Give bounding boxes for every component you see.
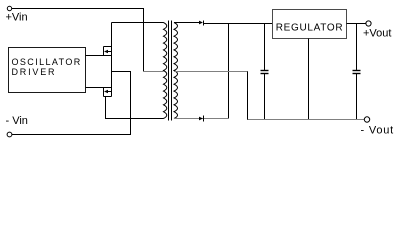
wire -Vin rail — [12, 134, 131, 136]
transistor Q2 — [104, 87, 112, 97]
capacitor C1 — [261, 24, 269, 121]
transistor Q1 — [104, 47, 112, 57]
svg-text:- Vout: - Vout — [361, 125, 395, 137]
wire +Vin drop to center tap — [143, 9, 145, 73]
terminal -Vin — [7, 132, 12, 137]
transformer T1 core — [168, 21, 170, 121]
diode D2 — [199, 116, 204, 122]
svg-text:- Vin: - Vin — [6, 115, 28, 127]
wire FET chain vertical — [111, 23, 113, 97]
wire regulator ground lead — [308, 39, 310, 121]
terminal +Vout — [366, 21, 371, 26]
svg-text:+Vin: +Vin — [6, 12, 28, 24]
wire secondary bottom lead (grey) — [174, 118, 229, 120]
wire regulator output — [347, 23, 366, 25]
wire midpoint tap — [112, 71, 132, 73]
wire primary bottom lead — [106, 118, 164, 120]
svg-text:OSCILLATOR: OSCILLATOR — [12, 57, 82, 67]
wire Q2 drain down — [105, 97, 107, 120]
wire Q1 drain to primary top — [112, 22, 164, 24]
svg-text:DRIVER: DRIVER — [12, 67, 57, 77]
box oscillator driver — [9, 48, 86, 93]
wire top rail after D1 — [204, 23, 273, 25]
wire gate Q1 — [86, 55, 104, 57]
wire junction drop D2 output — [228, 24, 230, 120]
diode D1 — [199, 21, 204, 26]
transformer T1 primary winding — [164, 23, 167, 119]
wire primary center tap (grey) — [143, 71, 164, 73]
wire gate Q2 — [86, 87, 104, 89]
svg-text:+Vout: +Vout — [363, 28, 391, 40]
wire +Vin rail — [12, 8, 144, 10]
box regulator — [273, 10, 347, 39]
svg-text:REGULATOR: REGULATOR — [276, 23, 344, 34]
wire center tap down to minus rail — [247, 72, 249, 121]
terminal +Vin — [7, 6, 11, 10]
terminal -Vout — [364, 117, 369, 122]
transformer T1 secondary winding — [174, 23, 178, 119]
wire midpoint down to -Vin — [130, 72, 132, 136]
wire secondary top lead — [174, 22, 200, 24]
wire bottom output rail — [248, 119, 365, 121]
wire secondary center tap (grey) — [174, 71, 248, 73]
capacitor C2 — [353, 24, 361, 121]
